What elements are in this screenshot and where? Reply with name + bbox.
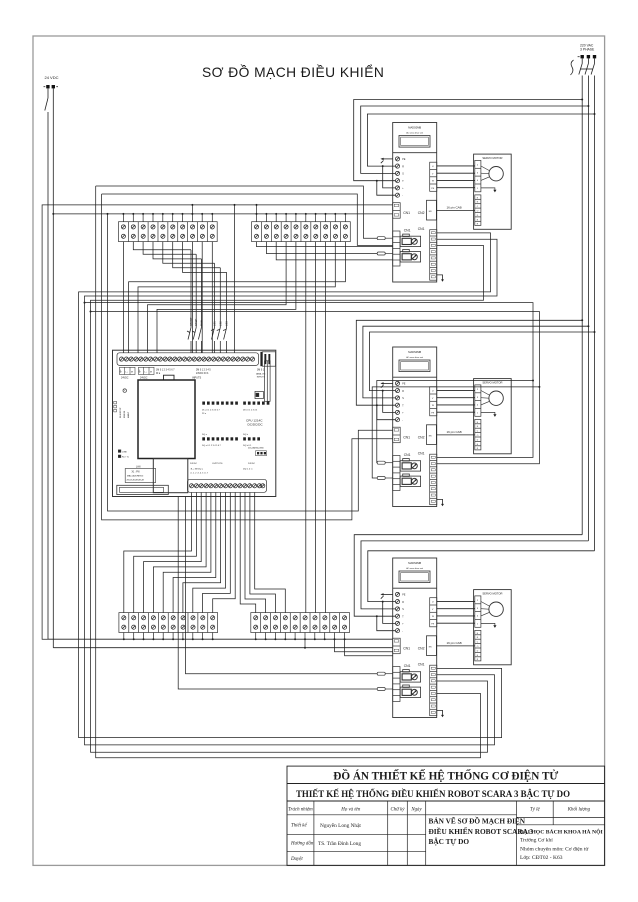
svg-text:24VDC: 24VDC bbox=[121, 377, 129, 379]
svg-text:Nhóm chuyên môn: Cơ điện tử: Nhóm chuyên môn: Cơ điện tử bbox=[520, 846, 589, 852]
wire TB4 col10 to U3 bbox=[345, 639, 393, 656]
wire U2 CN1out1 up to loop bbox=[437, 380, 534, 458]
wire PLC output to U3 plug b bbox=[178, 497, 377, 690]
svg-text:X1 : PN: X1 : PN bbox=[132, 471, 140, 473]
wire phase A vertical bbox=[581, 76, 583, 535]
wire phase B to U2 terminal S bbox=[363, 326, 589, 398]
svg-text:RUN/STOP: RUN/STOP bbox=[120, 407, 122, 418]
wire bottom bus1 bbox=[48, 638, 393, 640]
wire phase C to U1 terminal R bbox=[367, 114, 594, 188]
wire TB1 col10 to PLC input bbox=[211, 242, 213, 353]
svg-text:Hướng dẫn: Hướng dẫn bbox=[290, 841, 314, 847]
svg-text:Tỷ lệ: Tỷ lệ bbox=[530, 807, 540, 812]
svg-text:16 pin CAB: 16 pin CAB bbox=[447, 641, 462, 645]
wire bus1 drop to PLC bbox=[234, 204, 236, 353]
resistor plug R2a bbox=[377, 461, 393, 464]
wire TB1 col9 to PLC input bbox=[201, 242, 203, 353]
svg-text:BẬC TỰ DO: BẬC TỰ DO bbox=[429, 837, 470, 846]
svg-text:ERROR: ERROR bbox=[124, 410, 126, 418]
PE earth arrow U1 bbox=[380, 158, 392, 164]
svg-text:24VDC: 24VDC bbox=[190, 463, 197, 465]
wire phase B to U1 terminal S bbox=[361, 106, 589, 173]
PE earth arrow U3 bbox=[380, 593, 392, 599]
svg-text:Lớp: CĐT02 - K63: Lớp: CĐT02 - K63 bbox=[520, 855, 563, 861]
wire U2 CN1out2 up to loop bbox=[437, 386, 541, 464]
PLC MAC address label bbox=[125, 469, 156, 483]
svg-text:Nguyễn Long Nhật: Nguyễn Long Nhật bbox=[320, 822, 361, 829]
pushbutton START bbox=[187, 250, 193, 353]
encoder cable U2 bbox=[437, 430, 475, 435]
PLC CPU 1214C DC/DC/DC bbox=[113, 350, 276, 496]
PLC ethernet port bbox=[117, 485, 169, 494]
wires U3 to M3 bbox=[437, 601, 475, 623]
svg-text:LS1: LS1 bbox=[213, 321, 217, 326]
wire bus2 branch to U2 CN1 bbox=[107, 213, 393, 511]
wire TB2 col2 to U1 plug K2 bbox=[266, 242, 377, 254]
wire TB1 col3 to STOP bbox=[143, 242, 196, 255]
pushbutton RUN bbox=[198, 259, 203, 353]
svg-text:28-63-36-88-88-48: 28-63-36-88-88-48 bbox=[127, 480, 145, 482]
svg-text:DQ a 0 1 2 3 4 5 6 7: DQ a 0 1 2 3 4 5 6 7 bbox=[202, 445, 222, 447]
wire TB2 col4 loop to PLC bbox=[148, 242, 287, 353]
svg-text:LS3: LS3 bbox=[225, 321, 229, 326]
wires PLC bottom to TB4 columns bbox=[240, 493, 285, 613]
resistor plug R3b bbox=[377, 688, 393, 691]
svg-text:ĐẠI HỌC BÁCH KHOA HÀ NỘI: ĐẠI HỌC BÁCH KHOA HÀ NỘI bbox=[520, 828, 604, 836]
PLC status LEDs bbox=[114, 401, 117, 412]
PLC right signal board slot bbox=[255, 361, 270, 402]
svg-text:Duyệt: Duyệt bbox=[290, 857, 303, 862]
svg-text:DI b 0 1 2 3 4 5: DI b 0 1 2 3 4 5 bbox=[243, 409, 258, 411]
limit switch LS1 bbox=[211, 263, 217, 353]
terminal block TB2 (top right) bbox=[252, 222, 351, 242]
svg-text:Rx / Tx: Rx / Tx bbox=[122, 457, 130, 459]
wire TB2 col8 drop to TB4 bbox=[325, 242, 327, 613]
terminal block TB4 (bottom right) bbox=[251, 613, 350, 633]
wire left trunk loop B lower bbox=[102, 194, 393, 520]
svg-text:LINK: LINK bbox=[122, 451, 127, 453]
servo driver U1 bbox=[393, 123, 444, 283]
svg-text:DI a: DI a bbox=[156, 373, 161, 375]
svg-text:Trường Cơ khí: Trường Cơ khí bbox=[520, 838, 553, 844]
wire stubs bus2 to TB1 columns bbox=[122, 204, 213, 222]
svg-text:Họ và tên: Họ và tên bbox=[340, 807, 361, 812]
wire 24VDC bus1 to driver1 CN1 bbox=[48, 204, 393, 206]
svg-text:Ngày: Ngày bbox=[410, 807, 422, 812]
svg-text:RUN: RUN bbox=[199, 320, 203, 326]
wires U2 to M2 bbox=[437, 390, 475, 412]
encoder cable U3 bbox=[437, 641, 475, 646]
servo motor M3 bbox=[474, 590, 512, 665]
resistor plug R2b bbox=[377, 477, 393, 480]
wire phase A to U3 terminal T bbox=[354, 535, 582, 631]
wire phase A to U1 terminal T bbox=[354, 100, 583, 196]
drawing title bbox=[202, 63, 384, 80]
wire trunk branch to U2 plug b bbox=[90, 311, 540, 479]
220 VAC 3 phase source bbox=[578, 44, 597, 59]
svg-text:24 VDC: 24 VDC bbox=[45, 75, 59, 80]
wire TB1 col7 to LS3 bbox=[183, 242, 227, 273]
svg-text:Khối lượng: Khối lượng bbox=[567, 807, 591, 812]
pushbutton STOP bbox=[192, 254, 198, 353]
wire 24VDC spare rail bbox=[42, 205, 48, 639]
wire U1 CN1out1 long loop left bbox=[79, 233, 502, 738]
wire TB4 col9 to U3 bbox=[335, 639, 393, 652]
svg-text:INPUTS: INPUTS bbox=[257, 377, 266, 379]
wire TB1 col1 to PLC input bbox=[122, 242, 124, 353]
svg-text:DQ b: DQ b bbox=[243, 434, 249, 436]
svg-text:BẢN VẼ SƠ ĐỒ MẠCH ĐIỆN: BẢN VẼ SƠ ĐỒ MẠCH ĐIỆN bbox=[429, 816, 526, 826]
svg-text:16 pin CAB: 16 pin CAB bbox=[447, 430, 462, 434]
circuit breaker 3-pole bbox=[571, 58, 595, 75]
wire TB2 col10 loop to PLC bbox=[129, 242, 346, 353]
wire phase A to U2 terminal T bbox=[356, 320, 582, 419]
svg-text:STOP: STOP bbox=[194, 319, 198, 326]
svg-text:ĐIỀU KHIỂN ROBOT SCARA 3: ĐIỀU KHIỂN ROBOT SCARA 3 bbox=[429, 826, 534, 836]
wire PLC output to U3 plug a bbox=[186, 497, 378, 674]
svg-text:THIẾT KẾ HỆ THỐNG ĐIỀU KHIỂN R: THIẾT KẾ HỆ THỐNG ĐIỀU KHIỂN ROBOT SCARA… bbox=[296, 789, 570, 799]
wire phase B vertical bbox=[587, 76, 589, 541]
servo motor M1 bbox=[474, 154, 512, 229]
servo driver U2 bbox=[393, 347, 444, 507]
resistor plug R1a bbox=[377, 237, 393, 240]
svg-text:DI a 0 1 2 3 4 5 6 7: DI a 0 1 2 3 4 5 6 7 bbox=[202, 409, 221, 411]
PLC LINK LEDs bbox=[118, 450, 121, 458]
servo motor M2 bbox=[474, 379, 512, 454]
svg-text:1M 0 1 2 3 4 5 6 7: 1M 0 1 2 3 4 5 6 7 bbox=[156, 369, 175, 371]
svg-text:DQ a: DQ a bbox=[202, 434, 208, 436]
svg-text:DQ b .0 .1: DQ b .0 .1 bbox=[243, 468, 253, 470]
switch on 24VDC line bbox=[45, 88, 48, 204]
svg-text:MAINT: MAINT bbox=[127, 411, 130, 418]
wire phase C to U2 terminal R bbox=[370, 332, 595, 412]
svg-text:16 pin CAB: 16 pin CAB bbox=[447, 206, 462, 210]
wire TB1 col2 to START bbox=[133, 242, 191, 250]
wires U1 to M1 (U V W PE) bbox=[437, 166, 475, 188]
wire stubs bus2 to TB2 columns bbox=[256, 204, 347, 222]
encoder cable U1 (16 pin CAB) bbox=[437, 206, 475, 211]
wire stubs TB3 to bottom bus bbox=[123, 633, 214, 641]
wires PLC bottom to TB3 columns bbox=[124, 493, 235, 613]
svg-text:Thiết kế: Thiết kế bbox=[291, 824, 307, 829]
wire U1 CN1out2 long loop left bbox=[85, 239, 498, 745]
svg-text:Trách nhiệm: Trách nhiệm bbox=[288, 807, 313, 812]
resistor plug R3a bbox=[377, 672, 393, 675]
limit switch LS3 bbox=[223, 272, 229, 352]
wire TB2 col5 loop to PLC bbox=[157, 242, 296, 353]
terminal block TB3 (bottom left) bbox=[119, 613, 218, 633]
svg-text:TS. Trần Đình Long: TS. Trần Đình Long bbox=[318, 840, 361, 847]
svg-text:216-1AE30-0XB0: 216-1AE30-0XB0 bbox=[248, 447, 264, 450]
wire U1 CN1out3 long loop left bbox=[91, 246, 488, 753]
24 VDC supply source bbox=[44, 75, 59, 88]
wire TB2 col7 drop to TB4 bbox=[315, 242, 317, 613]
wire TB2 col3 to U1 CN1 low bbox=[276, 242, 393, 260]
svg-text:OUTPUTS: OUTPUTS bbox=[212, 463, 223, 465]
svg-text:24VDC: 24VDC bbox=[140, 377, 148, 379]
wire TB2 col1 to U1 CN1 bbox=[257, 242, 393, 247]
svg-text:M: M bbox=[150, 371, 152, 373]
wire bottom bus2 bbox=[53, 647, 393, 649]
wire TB1 col5 to LS1 bbox=[163, 242, 215, 264]
wire stubs TB4 to bottom bus bbox=[255, 633, 346, 649]
svg-text:24VDC DI b: 24VDC DI b bbox=[196, 373, 209, 375]
wire 24VDC bus2 to driver1 CN1 bbox=[52, 213, 393, 215]
PLC memory card door bbox=[138, 375, 195, 458]
svg-text:.0 .1 .2 .3 .4 .5 .6 .7: .0 .1 .2 .3 .4 .5 .6 .7 bbox=[190, 472, 209, 474]
wire trunk branch to U2 plug a bbox=[84, 302, 534, 463]
svg-text:2M 0 1 2 3 4 5: 2M 0 1 2 3 4 5 bbox=[196, 369, 211, 371]
svg-text:24VDC: 24VDC bbox=[248, 463, 255, 465]
wire left trunk loop A lower bbox=[96, 186, 481, 758]
wire phase B to U3 terminal S bbox=[361, 541, 588, 609]
wire trunk loop to U1 CN1 bbox=[102, 194, 393, 245]
PLC memory door lower bbox=[153, 459, 188, 493]
PLC top terminal strip bbox=[117, 352, 276, 366]
svg-text:LAN: LAN bbox=[136, 465, 141, 468]
svg-text:3 PHASE: 3 PHASE bbox=[580, 48, 595, 52]
PE earth arrow U2 bbox=[380, 382, 392, 388]
title block bbox=[287, 766, 605, 865]
resistor plug R1b bbox=[377, 252, 393, 255]
wire TB1 col8 to PLC input bbox=[191, 242, 193, 353]
svg-text:LS2: LS2 bbox=[218, 321, 222, 326]
limit switch LS2 bbox=[217, 268, 223, 353]
svg-text:ĐỒ ÁN THIẾT KẾ HỆ THỐNG CƠ ĐIỆ: ĐỒ ÁN THIẾT KẾ HỆ THỐNG CƠ ĐIỆN TỬ bbox=[333, 769, 558, 782]
PLC bottom terminal strip bbox=[188, 479, 267, 492]
wire TB1 col4 to RUN bbox=[153, 242, 201, 259]
terminal block TB1 (top left) bbox=[119, 222, 218, 242]
wire phase C to U3 terminal R bbox=[368, 551, 595, 624]
svg-text:M: M bbox=[131, 371, 133, 373]
svg-text:3M 0 1: 3M 0 1 bbox=[257, 369, 265, 371]
PLC DQ status lamp row bbox=[202, 437, 260, 440]
wire 24VDC positive rail lower drop bbox=[47, 205, 49, 639]
svg-text:DC/DC/DC: DC/DC/DC bbox=[248, 423, 264, 427]
svg-text:INPUTS: INPUTS bbox=[192, 376, 202, 379]
svg-text:3L+ 3M DQ a: 3L+ 3M DQ a bbox=[191, 468, 204, 470]
PLC 24VDC input label boxes bbox=[120, 367, 155, 374]
PLC DI status lamp row a bbox=[202, 402, 269, 405]
wire TB1 col6 to LS2 bbox=[173, 242, 221, 268]
wire phase C vertical bbox=[594, 76, 596, 551]
servo driver U3 bbox=[393, 558, 444, 718]
svg-text:Chữ ký: Chữ ký bbox=[391, 807, 406, 812]
wire trunk loop to U1 plug a bbox=[96, 186, 378, 238]
wire TB2 col9 loop to PLC bbox=[138, 242, 335, 353]
wire 24VDC negative rail bbox=[52, 88, 54, 647]
svg-text:MAC ADDRESS:: MAC ADDRESS: bbox=[127, 474, 144, 477]
svg-text:SƠ ĐỒ MẠCH ĐIỀU KHIỂN: SƠ ĐỒ MẠCH ĐIỀU KHIỂN bbox=[202, 63, 384, 80]
wire TB2 col6 drop to TB4 bbox=[305, 242, 307, 613]
